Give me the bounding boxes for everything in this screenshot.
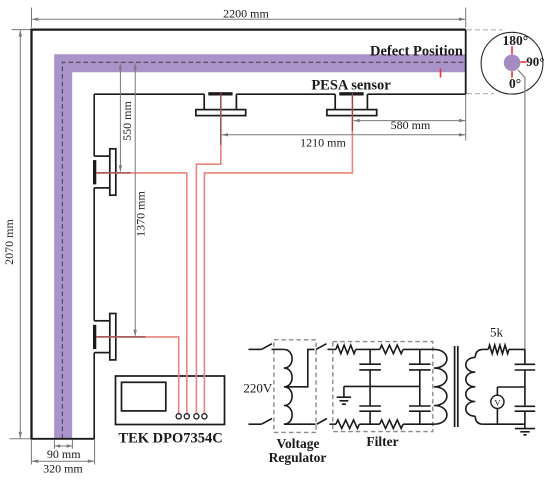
svg-text:Filter: Filter — [366, 434, 398, 449]
svg-text:5k: 5k — [490, 325, 504, 340]
svg-text:Voltage: Voltage — [277, 436, 320, 451]
svg-text:550 mm: 550 mm — [120, 101, 134, 141]
svg-text:320 mm: 320 mm — [43, 461, 83, 475]
svg-text:0°: 0° — [509, 76, 521, 91]
svg-text:Defect Position: Defect Position — [370, 43, 463, 59]
svg-text:PESA sensor: PESA sensor — [311, 77, 391, 93]
svg-text:220V: 220V — [243, 380, 273, 395]
svg-text:2070 mm: 2070 mm — [2, 219, 16, 265]
svg-text:90 mm: 90 mm — [47, 447, 81, 461]
svg-text:90°: 90° — [526, 54, 544, 69]
svg-text:1210 mm: 1210 mm — [300, 136, 346, 150]
svg-text:580 mm: 580 mm — [391, 118, 431, 132]
svg-text:180°: 180° — [502, 33, 528, 48]
svg-text:TEK DPO7354C: TEK DPO7354C — [118, 430, 222, 446]
svg-text:V: V — [494, 397, 501, 407]
svg-text:1370 mm: 1370 mm — [134, 191, 148, 237]
svg-text:2200 mm: 2200 mm — [223, 7, 269, 21]
svg-text:Regulator: Regulator — [269, 450, 327, 465]
